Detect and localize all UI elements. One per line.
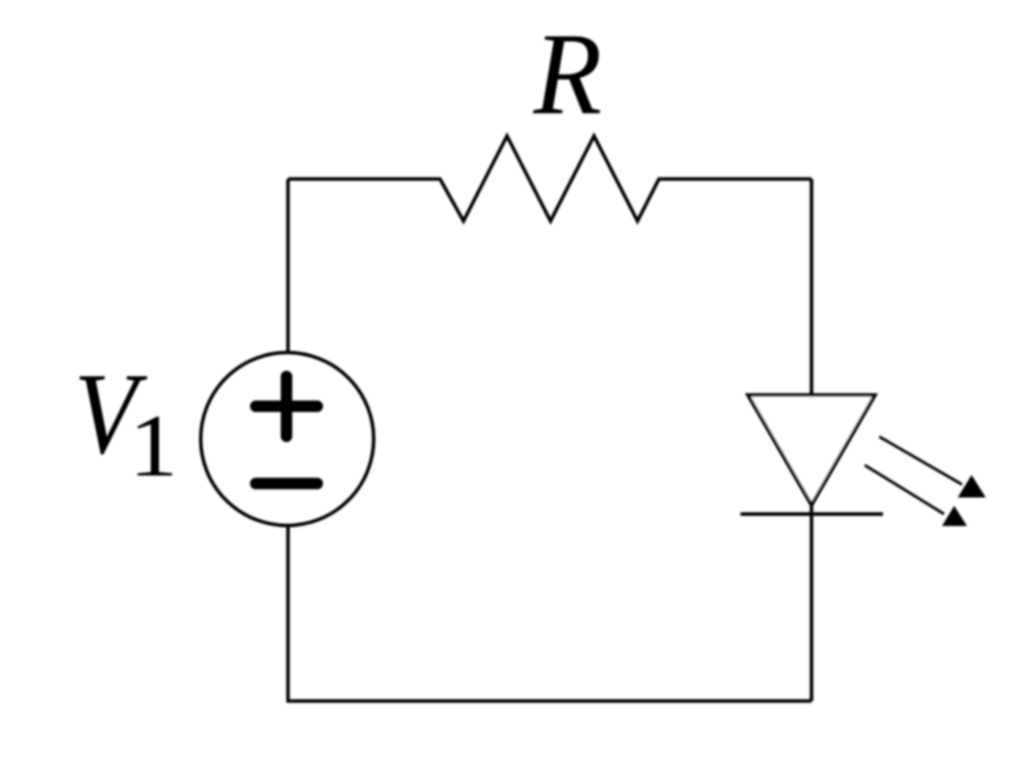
svg-text:R: R (533, 8, 602, 139)
svg-text:1: 1 (129, 397, 178, 495)
